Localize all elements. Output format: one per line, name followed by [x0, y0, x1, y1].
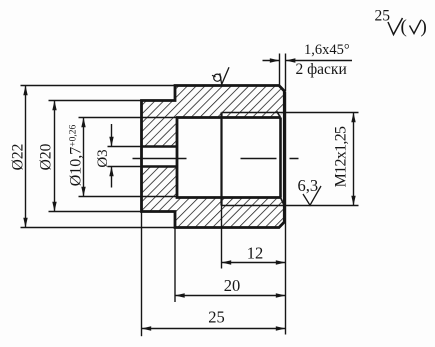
svg-text:M12x1,25: M12x1,25	[333, 126, 350, 187]
svg-text:): )	[421, 17, 427, 38]
phi3 hole wall top	[142, 145, 178, 148]
svg-text:25: 25	[208, 308, 225, 327]
dim 20	[175, 228, 286, 303]
svg-text:2 фаски: 2 фаски	[296, 61, 347, 78]
bore opening chamfer bottom	[281, 198, 285, 206]
dim phi20	[49, 101, 142, 212]
dim 12	[222, 206, 286, 269]
bore outline	[177, 118, 281, 198]
thread major line bottom	[222, 205, 359, 207]
svg-text:1,6x45°: 1,6x45°	[304, 42, 350, 58]
dim 25	[142, 212, 286, 337]
extension line phi10.7 bottom	[79, 196, 178, 198]
hatch lower wall	[142, 167, 285, 228]
surface roughness mark on top face	[212, 75, 216, 77]
bore opening chamfer top	[277, 111, 281, 117]
svg-text:20: 20	[224, 276, 241, 295]
right extension line	[285, 92, 287, 335]
svg-text:12: 12	[247, 244, 264, 263]
centerline	[133, 158, 299, 160]
bore right edge	[279, 118, 282, 198]
part outer outline	[142, 86, 285, 228]
svg-text:25: 25	[375, 8, 391, 25]
extension line phi10.7 top	[79, 117, 178, 119]
thread major line top	[222, 112, 359, 114]
svg-text:Ø3: Ø3	[95, 149, 111, 167]
svg-text:6,3: 6,3	[298, 176, 319, 195]
dim phi10.7	[81, 118, 85, 197]
dim M12x1.25	[351, 113, 355, 206]
hatch upper wall	[142, 86, 285, 147]
thread end line	[220, 113, 222, 206]
svg-text:Ø20: Ø20	[38, 143, 55, 170]
svg-text:(: (	[401, 17, 407, 38]
svg-text:Ø22: Ø22	[10, 144, 27, 171]
dim phi22	[21, 86, 176, 228]
chamfer dim 1.6x45	[263, 54, 353, 92]
phi3 hole wall bottom	[142, 165, 178, 168]
dim phi3	[108, 124, 142, 188]
